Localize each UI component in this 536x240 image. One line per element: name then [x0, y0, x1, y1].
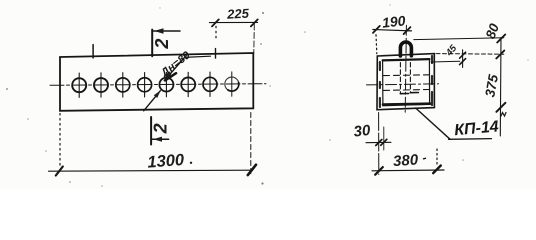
- small scribble mark top right of label: [501, 113, 506, 117]
- section mark 2 (bottom): [150, 117, 170, 145]
- tick on plate top edge: [92, 45, 94, 58]
- svg-text:45: 45: [443, 43, 459, 59]
- svg-text:1300: 1300: [147, 151, 186, 172]
- dimension 30: [353, 113, 391, 175]
- dimension 1300: [49, 113, 257, 177]
- extension from square top to right: [436, 53, 504, 56]
- lifting loop: [400, 42, 411, 56]
- right wall dark segments: [431, 56, 433, 105]
- svg-text:380: 380: [393, 151, 420, 170]
- hole 2: [94, 73, 108, 97]
- svg-text:2: 2: [152, 39, 172, 50]
- right vertical dimension line (80 / 375): [482, 21, 505, 136]
- plate outline (view 1): [60, 53, 253, 111]
- svg-text:30: 30: [353, 122, 372, 141]
- horizontal centerline of plate: [50, 84, 266, 86]
- extension from loop top to right: [414, 38, 504, 40]
- centerlines: [367, 84, 439, 85]
- svg-text:КП-14: КП-14: [454, 118, 500, 139]
- dimension 190: [373, 12, 412, 53]
- hidden loop legs (dashed): [399, 63, 401, 94]
- hole 8: [225, 72, 239, 96]
- hole 6: [181, 72, 195, 96]
- thick inner top edge: [383, 59, 430, 60]
- leg hooks: [400, 93, 408, 95]
- hole 7: [203, 72, 217, 96]
- leader label Dn=89: [144, 49, 211, 111]
- section mark 2 (top): [152, 28, 180, 56]
- label KP-14: [416, 108, 500, 139]
- outer square: [377, 54, 434, 110]
- svg-text:225: 225: [226, 6, 250, 22]
- svg-text:2: 2: [150, 123, 170, 134]
- thick inner bottom edge: [383, 102, 431, 105]
- hidden horizontal edges: [384, 74, 430, 77]
- dimension 225: [209, 6, 257, 58]
- hole 4: [138, 73, 152, 97]
- svg-text:190: 190: [381, 12, 406, 30]
- extension from inner top to right: [431, 60, 460, 63]
- svg-text:375: 375: [482, 73, 501, 98]
- hole 5: [159, 72, 173, 96]
- dimension 380: [372, 149, 444, 175]
- scan specks: [6, 4, 529, 187]
- inner square: [383, 59, 430, 106]
- hole 1: [72, 73, 86, 97]
- left wall dark segments: [379, 62, 381, 107]
- small dimension 45: [443, 43, 465, 68]
- hole 3: [116, 73, 130, 97]
